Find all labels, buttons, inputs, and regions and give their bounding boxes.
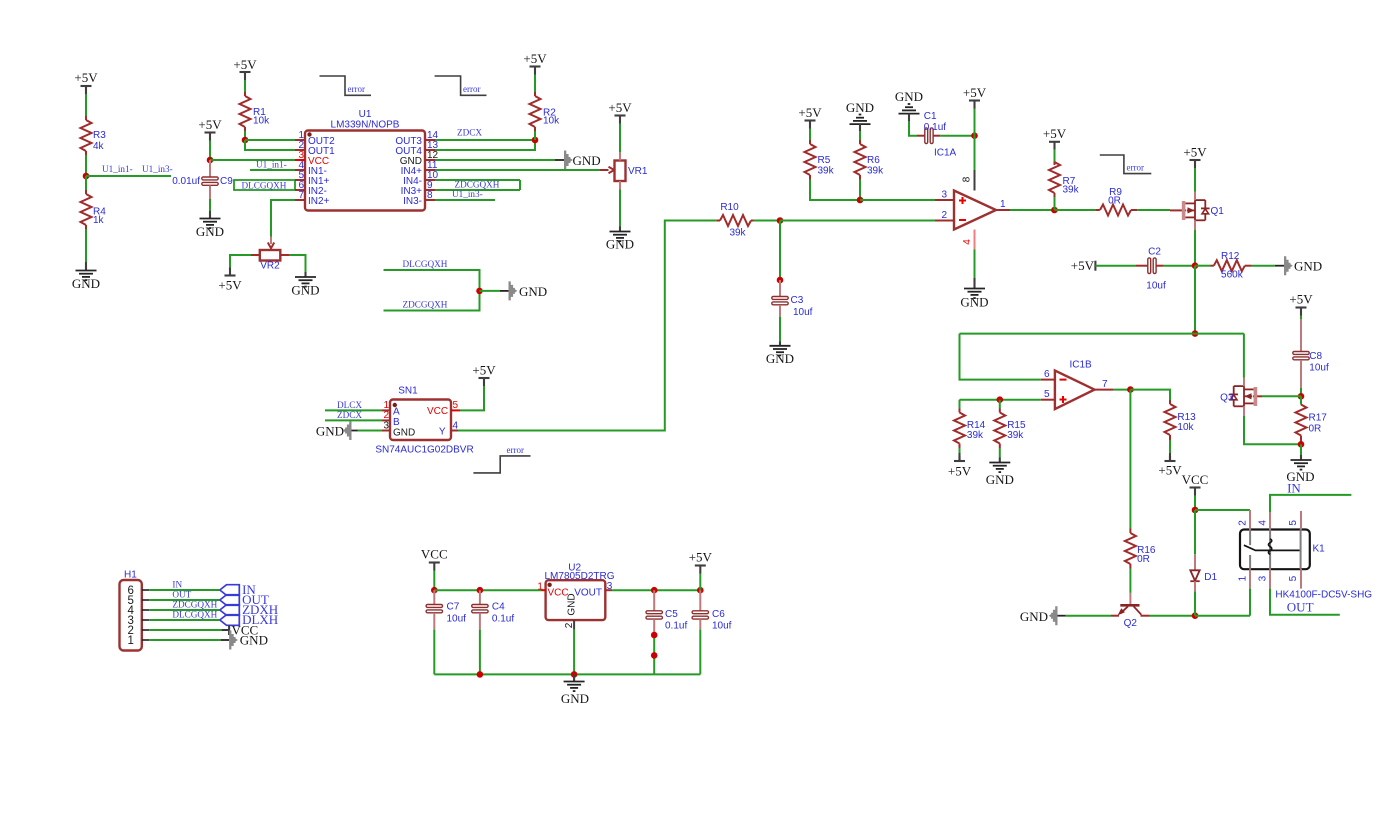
- IC1B pin 5 +: [1041, 389, 1055, 400]
- junction: [1192, 507, 1199, 514]
- svg-text:IN: IN: [172, 579, 182, 589]
- svg-text:39k: 39k: [1063, 185, 1080, 196]
- svg-text:5: 5: [1044, 389, 1050, 400]
- svg-text:39k: 39k: [818, 166, 835, 177]
- svg-text:IN2+: IN2+: [308, 196, 330, 207]
- junction: [651, 632, 658, 639]
- svg-text:+5V: +5V: [963, 85, 987, 100]
- svg-text:+5V: +5V: [198, 117, 222, 132]
- svg-text:U1_in1-: U1_in1-: [256, 160, 287, 170]
- wire net DLCX (SN1 pin 1): [325, 409, 382, 411]
- svg-text:IN3-: IN3-: [403, 196, 422, 207]
- net label DLCGQXH: [403, 259, 448, 269]
- svg-text:Q3: Q3: [1220, 393, 1234, 404]
- svg-text:2: 2: [383, 410, 389, 421]
- junction: [1192, 330, 1199, 337]
- svg-text:+5V: +5V: [472, 363, 496, 378]
- svg-text:0R: 0R: [1137, 554, 1150, 565]
- net label IN: [172, 579, 182, 589]
- ground GND flag (R12 right): [1275, 256, 1322, 275]
- svg-text:10uf: 10uf: [712, 621, 732, 632]
- resistor R9 0R: [1095, 187, 1137, 216]
- resistor R6 39k: [855, 140, 885, 180]
- svg-text:VR1: VR1: [628, 166, 648, 177]
- svg-text:U1_in3-: U1_in3-: [452, 189, 483, 199]
- svg-text:ZDCX: ZDCX: [337, 410, 362, 420]
- wire: [244, 80, 246, 92]
- wire (to IC1A pin 2): [780, 220, 935, 222]
- wire (Q3 drain to R17 bottom): [1244, 416, 1301, 444]
- power +5V (VR2 left, inverted): [218, 268, 242, 293]
- net label box DLCGQXH (U1 pins 5-6): [234, 180, 295, 190]
- wire to U1 pin 4: [250, 169, 295, 171]
- capacitor C4 0.1uf: [472, 590, 515, 629]
- svg-text:3: 3: [1258, 575, 1269, 581]
- signal marker error 2: [435, 76, 487, 95]
- K1 pin 3: [1258, 569, 1271, 588]
- svg-text:+5V: +5V: [948, 464, 972, 479]
- diode D1: [1190, 554, 1217, 591]
- H1 pin 3: [127, 615, 149, 627]
- svg-text:10uf: 10uf: [1309, 363, 1329, 374]
- wire (Q3 gate): [1262, 395, 1301, 397]
- wire net ZDCX (SN1 pin 2): [325, 419, 382, 421]
- svg-text:SN1: SN1: [398, 386, 418, 397]
- wire: [809, 129, 811, 141]
- capacitor C8 10uf: [1293, 319, 1329, 388]
- wire: [653, 635, 655, 674]
- wire (to IC1B pin 5): [960, 399, 1041, 401]
- voltage regulator U2 LM7805D2TRG body: [544, 562, 614, 620]
- wire: [619, 124, 621, 153]
- wire: [909, 121, 917, 136]
- op-amp IC1B: [1055, 360, 1095, 410]
- transistor Q2 PNP: [1111, 593, 1150, 629]
- svg-text:10uf: 10uf: [1146, 281, 1166, 292]
- ground GND (below C3): [766, 342, 794, 366]
- capacitor C7 10uf: [426, 590, 466, 629]
- svg-text:+5V: +5V: [1043, 126, 1067, 141]
- junction: [777, 277, 784, 284]
- svg-text:1: 1: [127, 635, 133, 647]
- svg-text:0.1uf: 0.1uf: [492, 614, 514, 625]
- svg-text:C3: C3: [791, 295, 804, 306]
- signal marker error 1: [320, 76, 372, 95]
- wire: [209, 199, 211, 211]
- SN1 pin 1 A: [382, 400, 390, 411]
- junction: [857, 197, 864, 204]
- svg-text:GND: GND: [960, 295, 988, 310]
- svg-text:GND: GND: [561, 691, 589, 706]
- wire to U1 pin 2: [245, 140, 295, 150]
- wire (pin 13 up to R2): [435, 140, 535, 150]
- wire (U1 pin 7 to VR2 wiper): [271, 200, 295, 237]
- wire: [244, 131, 246, 140]
- op-amp IC1A: [934, 148, 996, 250]
- port tag IN: [220, 582, 257, 597]
- ground GND (VR2 right): [291, 272, 319, 298]
- net label ZDCGQXH: [172, 600, 217, 610]
- net label DLCGQXH: [172, 610, 217, 620]
- wire: [289, 255, 306, 272]
- svg-text:2: 2: [564, 622, 575, 628]
- capacitor C9 0.01uf: [172, 160, 233, 199]
- wire: [433, 630, 435, 675]
- svg-text:39k: 39k: [967, 430, 984, 441]
- svg-text:error: error: [348, 84, 366, 94]
- wire: [859, 180, 861, 201]
- svg-text:SN74AUC1G02DBVR: SN74AUC1G02DBVR: [375, 445, 473, 456]
- K1 pin 2: [1237, 510, 1250, 530]
- op-amp comparator U1 LM339N/NOPB body: [305, 109, 425, 211]
- svg-text:U1_in1-: U1_in1-: [102, 164, 133, 174]
- svg-text:VCC: VCC: [427, 406, 448, 417]
- svg-text:560k: 560k: [1221, 270, 1244, 281]
- H1 pin 6: [127, 585, 149, 597]
- wire (IC1B out down to R16): [1129, 390, 1131, 529]
- svg-text:GND: GND: [1020, 609, 1048, 624]
- wire: [1195, 615, 1250, 617]
- SN1 pin 4 Y: [451, 421, 459, 432]
- port tag OUT: [220, 592, 269, 607]
- svg-text:C2: C2: [1148, 247, 1161, 258]
- resistor R13 10k: [1165, 400, 1197, 440]
- wire net U1_in3- (pin 8): [435, 199, 495, 201]
- net label U1_in3-: [452, 189, 483, 199]
- svg-text:1k: 1k: [93, 215, 105, 226]
- wire: [1095, 265, 1136, 267]
- U1 pin 10 IN4-: [403, 170, 438, 187]
- svg-text:DLCX: DLCX: [337, 400, 362, 410]
- wire: [1194, 510, 1196, 554]
- svg-text:C6: C6: [712, 609, 725, 620]
- svg-text:DLCGQXH: DLCGQXH: [172, 610, 217, 620]
- junction: [777, 217, 784, 224]
- wire net OUT (relay pin 3): [1270, 589, 1340, 615]
- svg-text:+5V: +5V: [1071, 258, 1095, 273]
- junction: [532, 137, 539, 144]
- svg-text:ZDCGQXH: ZDCGQXH: [172, 600, 217, 610]
- capacitor C3 10uf: [772, 280, 813, 318]
- power VCC (above D1): [1182, 472, 1209, 496]
- wire (R9 to Q1 gate): [1137, 209, 1170, 211]
- svg-text:GND: GND: [606, 237, 634, 252]
- svg-text:GND: GND: [846, 100, 874, 115]
- net label ZDCGQXH: [403, 299, 448, 309]
- ground GND flag (Q2 emitter): [1020, 606, 1066, 625]
- power +5V (below R13, inverted): [1158, 440, 1182, 478]
- junction: [1192, 612, 1199, 619]
- ground GND (below C9): [196, 211, 224, 239]
- svg-text:7: 7: [298, 190, 304, 201]
- wire: [754, 220, 781, 222]
- svg-text:R6: R6: [867, 155, 880, 166]
- svg-text:3: 3: [941, 189, 947, 200]
- wire net OUT (H1 pin 5): [149, 599, 220, 601]
- net label ZDCX: [457, 128, 482, 138]
- K1 pin 5 (bottom): [1288, 569, 1301, 588]
- wire: [779, 221, 781, 281]
- svg-text:Q2: Q2: [1124, 618, 1138, 629]
- svg-text:39k: 39k: [867, 166, 884, 177]
- wire: [480, 290, 501, 292]
- wire: [85, 94, 87, 116]
- wire net ZDCGQXH: [384, 291, 480, 311]
- wire: [940, 135, 974, 137]
- port tag DLXH: [220, 612, 278, 627]
- wire: [1054, 197, 1056, 210]
- svg-text:IN: IN: [1287, 480, 1301, 495]
- IC1A pin 2 -: [935, 210, 954, 221]
- svg-text:VOUT: VOUT: [574, 587, 602, 598]
- junction: [1298, 393, 1305, 400]
- K1 pin 1: [1237, 569, 1250, 588]
- junction: [697, 587, 704, 594]
- power +5V (R5 top): [798, 105, 822, 129]
- ground GND flag (net tie): [500, 281, 547, 300]
- wire (SN1 Y output, long route): [458, 221, 716, 431]
- svg-text:0.1uf: 0.1uf: [924, 122, 946, 133]
- resistor R5 39k: [805, 140, 835, 180]
- svg-text:K1: K1: [1313, 544, 1326, 555]
- wire: [974, 136, 976, 170]
- svg-text:GND: GND: [573, 153, 601, 168]
- junction: [477, 671, 484, 678]
- wire (U2 pin 3 to +5V rail): [612, 589, 700, 591]
- U1 pin 7 IN2+: [295, 190, 330, 207]
- svg-text:+5V: +5V: [74, 70, 98, 85]
- wire: [1194, 496, 1196, 511]
- wire: [1129, 569, 1131, 593]
- resistor R7 39k: [1049, 162, 1080, 198]
- svg-text:8: 8: [427, 190, 433, 201]
- SN1 pin 3 GND: [382, 421, 390, 432]
- svg-text:GND: GND: [291, 283, 319, 298]
- wire: [230, 255, 251, 272]
- svg-text:3: 3: [383, 421, 389, 432]
- wire: [1163, 265, 1195, 267]
- SN1 pin 2 B: [382, 410, 390, 421]
- junction: [477, 587, 484, 594]
- resistor R15 39k: [994, 400, 1026, 448]
- wire: [534, 131, 536, 140]
- svg-text:1: 1: [537, 582, 543, 593]
- svg-text:3: 3: [607, 581, 613, 592]
- svg-text:VCC: VCC: [548, 587, 569, 598]
- wire: [1194, 266, 1196, 334]
- power VCC (H1 pin 2): [222, 622, 259, 637]
- junction: [207, 157, 214, 164]
- wire (to IC1B pin 6): [960, 334, 1041, 380]
- svg-text:10uf: 10uf: [447, 614, 467, 625]
- junction: [431, 587, 438, 594]
- H1 pin 2: [127, 625, 149, 637]
- wire (VCC to relay coil pin 2): [1195, 509, 1250, 511]
- svg-text:1: 1: [1000, 199, 1006, 210]
- resistor R17 0R: [1296, 396, 1328, 444]
- svg-text:Q1: Q1: [1211, 206, 1225, 217]
- svg-text:ZDCGQXH: ZDCGQXH: [455, 180, 500, 190]
- svg-text:GND: GND: [72, 276, 100, 291]
- power +5V (R1 top): [233, 57, 257, 80]
- relay K1 HK4100F-DC5V-SHG body: [1240, 530, 1372, 601]
- net label OUT: [1287, 599, 1314, 614]
- transistor Q3 P-MOSFET (mirrored): [1220, 378, 1262, 417]
- logic gate SN1 SN74AUC1G02DBVR body: [375, 386, 473, 456]
- svg-text:VCC: VCC: [1182, 472, 1209, 487]
- U1 pin 13 OUT4: [395, 140, 438, 157]
- svg-text:B: B: [393, 417, 400, 428]
- H1 pin 1: [127, 635, 149, 647]
- svg-text:ZDCGQXH: ZDCGQXH: [403, 299, 448, 309]
- svg-text:H1: H1: [124, 569, 137, 580]
- wire to U1 pin 3 VCC: [210, 159, 295, 161]
- power +5V (R3 top): [74, 70, 98, 94]
- svg-text:+5V: +5V: [1158, 463, 1182, 478]
- svg-text:GND: GND: [567, 593, 578, 615]
- wire net ZDCX (pin 14): [435, 139, 535, 141]
- net label OUT: [172, 589, 191, 599]
- U1 pin 14 OUT3: [395, 130, 438, 147]
- svg-text:+5V: +5V: [1289, 292, 1313, 307]
- ground GND (U2): [561, 674, 589, 706]
- resistor R4 1k: [81, 190, 107, 229]
- svg-text:U1_in3-: U1_in3-: [142, 164, 173, 174]
- svg-text:R3: R3: [93, 130, 106, 141]
- U1 pin 1 OUT2: [295, 130, 335, 147]
- svg-text:0R: 0R: [1309, 424, 1322, 435]
- SN1 pin 5 VCC: [451, 400, 460, 411]
- svg-text:C8: C8: [1309, 351, 1322, 362]
- svg-text:R12: R12: [1221, 251, 1240, 262]
- wire (Q3 source up): [1243, 334, 1245, 378]
- junction: [571, 671, 578, 678]
- svg-text:R5: R5: [818, 155, 831, 166]
- net label ZDCX: [337, 410, 362, 420]
- ground GND (below R15): [986, 448, 1014, 487]
- wire net IN (relay pin 4): [1270, 495, 1351, 512]
- svg-text:+5V: +5V: [608, 100, 632, 115]
- wire: [85, 155, 87, 176]
- capacitor C5 0.1uf: [646, 590, 687, 635]
- IC1B pin 7 output: [1095, 379, 1114, 390]
- U1 pin 4 IN1-: [295, 160, 327, 177]
- power +5V (SN1 VCC): [472, 363, 496, 387]
- wire: [1300, 316, 1302, 320]
- wire (feedback top rail): [960, 333, 1244, 335]
- wire: [1150, 615, 1195, 617]
- svg-text:IC1A: IC1A: [934, 148, 957, 159]
- svg-text:7: 7: [1102, 379, 1108, 390]
- U1 pin 6 IN2-: [295, 180, 327, 197]
- ground GND (above C1, inverted): [895, 89, 923, 121]
- potentiometer VR2: [251, 237, 289, 272]
- wire (pin 11 to VR1 wiper): [435, 169, 600, 171]
- wire: [699, 630, 701, 675]
- signal marker error 3: [473, 445, 530, 473]
- resistor R14 39k: [954, 400, 986, 448]
- capacitor C6 10uf: [692, 590, 732, 632]
- wire: [209, 141, 211, 161]
- wire (to R13): [1130, 390, 1170, 400]
- ground GND (below R4): [72, 262, 100, 291]
- junction: [1127, 386, 1134, 393]
- svg-text:C1: C1: [924, 111, 937, 122]
- power +5V (IC1A V+): [963, 85, 987, 109]
- power +5V (U2 output): [689, 550, 713, 574]
- svg-text:C7: C7: [447, 602, 460, 613]
- transistor Q1 P-MOSFET: [1170, 192, 1224, 231]
- svg-text:4: 4: [962, 239, 973, 245]
- svg-text:GND: GND: [895, 89, 923, 104]
- IC1A pin 3 +: [935, 189, 954, 200]
- U2 pin 3 VOUT: [605, 581, 612, 592]
- wire: [1194, 591, 1196, 615]
- power VCC (U2 input): [421, 547, 448, 571]
- svg-text:+5V: +5V: [798, 105, 822, 120]
- ground GND (above R6, inverted): [846, 100, 874, 131]
- svg-text:GND: GND: [196, 224, 224, 239]
- wire net U1_in1- / U1_in3-: [86, 175, 171, 177]
- resistor R10 39k: [716, 202, 753, 238]
- svg-text:1: 1: [1237, 575, 1248, 581]
- U1 pin 2 OUT1: [295, 140, 335, 157]
- svg-text:2: 2: [1237, 520, 1248, 526]
- svg-text:+5V: +5V: [218, 278, 242, 293]
- svg-text:GND: GND: [316, 423, 344, 438]
- resistor R1 10k: [240, 92, 271, 131]
- net label IN: [1287, 480, 1301, 495]
- resistor R3 4k: [81, 116, 107, 155]
- wire net IN (H1 pin 6): [149, 589, 220, 591]
- svg-text:error: error: [1127, 163, 1145, 173]
- svg-text:39k: 39k: [729, 227, 746, 238]
- svg-text:ZDCX: ZDCX: [457, 128, 482, 138]
- net label DLCX: [337, 400, 362, 410]
- svg-text:GND: GND: [393, 427, 415, 438]
- wire (ground rail): [434, 673, 700, 675]
- svg-text:VCC: VCC: [421, 547, 448, 562]
- signal marker error 4: [1100, 155, 1152, 174]
- svg-text:C5: C5: [665, 609, 678, 620]
- junction: [476, 288, 483, 295]
- wire: [699, 574, 701, 591]
- svg-text:10k: 10k: [253, 116, 270, 127]
- wire: [779, 317, 781, 342]
- junction: [651, 652, 658, 659]
- wire (U2 pin 2 down): [573, 630, 575, 675]
- wire: [1300, 388, 1302, 396]
- power +5V (R2 top): [523, 51, 547, 75]
- power +5V (Q1 source): [1183, 145, 1207, 169]
- svg-text:5: 5: [1288, 575, 1299, 581]
- junction: [1051, 207, 1058, 214]
- U1 pin 5 IN1+: [295, 170, 330, 187]
- power +5V (R7 top): [1043, 126, 1067, 150]
- wire (to IC1A pin 3): [860, 199, 935, 201]
- svg-text:GND: GND: [240, 632, 268, 647]
- wire: [460, 386, 484, 410]
- svg-text:R10: R10: [720, 202, 739, 213]
- svg-text:+5V: +5V: [233, 57, 257, 72]
- capacitor C1 0.1uf: [917, 111, 946, 144]
- svg-text:10k: 10k: [543, 116, 560, 127]
- svg-text:GND: GND: [986, 472, 1014, 487]
- svg-text:0.01uf: 0.01uf: [172, 176, 200, 187]
- power +5V (C2 left): [1071, 258, 1096, 273]
- resistor R2 10k: [530, 92, 561, 131]
- junction: [651, 587, 658, 594]
